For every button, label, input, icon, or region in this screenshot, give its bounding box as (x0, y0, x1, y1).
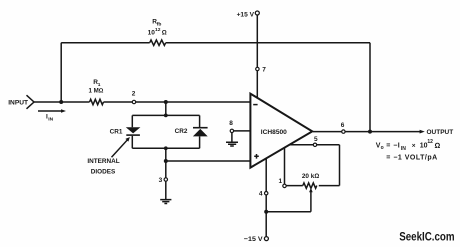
ground (pin 3) (160, 200, 171, 204)
svg-text:1: 1 (278, 178, 282, 185)
wire feedback top rail right (166, 42, 370, 44)
svg-text:+15 V: +15 V (237, 11, 255, 18)
node 2 (132, 100, 135, 103)
svg-text:ICH8500: ICH8500 (261, 129, 287, 136)
svg-text:20 kΩ: 20 kΩ (302, 173, 319, 180)
svg-text:4: 4 (259, 191, 263, 198)
svg-text:= −1 VOLT/pA: = −1 VOLT/pA (386, 154, 437, 161)
svg-text:= −I: = −I (386, 143, 400, 150)
wiper return wire (266, 211, 311, 213)
svg-text:INTERNAL: INTERNAL (87, 158, 119, 165)
svg-text:OUTPUT: OUTPUT (427, 129, 454, 136)
diode CR1 (126, 127, 141, 133)
diode box top edge (132, 114, 199, 116)
potentiometer 20 kOhm (303, 183, 317, 188)
svg-text:SeekIC.com: SeekIC.com (399, 230, 454, 243)
wire down to diode box (165, 102, 167, 115)
junction on box top edge (164, 114, 168, 118)
svg-text:5: 5 (314, 136, 318, 143)
pin 4 wire V- (265, 158, 267, 238)
svg-text:8: 8 (229, 120, 233, 127)
wire output (313, 131, 421, 133)
wire input line left of R1 (34, 101, 90, 103)
svg-text:CR1: CR1 (110, 128, 123, 135)
junction on box bottom edge (164, 146, 168, 150)
pot loop bottom left wire to pin 1 (285, 185, 303, 187)
pin 5 wire (290, 144, 340, 146)
svg-text:Ω: Ω (162, 30, 167, 37)
svg-text:1 MΩ: 1 MΩ (88, 88, 103, 95)
wire feedback right vertical (369, 43, 371, 132)
wire V+ supply vertical (256, 15, 258, 98)
wire to non-inverting input (166, 160, 251, 162)
svg-text:12: 12 (427, 139, 433, 145)
diode CR2 (193, 127, 208, 129)
svg-text:Ω: Ω (435, 141, 441, 150)
svg-text:fb: fb (157, 21, 162, 27)
node: V- wiper junction (264, 210, 268, 214)
diode box bottom edge (132, 147, 199, 149)
op-amp U1 ICH8500 (250, 94, 312, 168)
pot wiper arrow (309, 188, 313, 192)
svg-text:2: 2 (132, 90, 136, 97)
node: feedback tap junction (59, 100, 63, 104)
svg-text:DIODES: DIODES (91, 169, 116, 176)
svg-text:12: 12 (155, 27, 161, 33)
resistor Rfb (150, 40, 166, 45)
input terminal chevron (27, 95, 35, 109)
diode box right edge upper (199, 115, 201, 127)
pin 1 wire from op-amp (284, 148, 286, 186)
label arrow to CR1 (112, 139, 129, 157)
svg-text:7: 7 (262, 66, 266, 73)
pot loop bottom right wire (319, 185, 340, 187)
pot loop right edge (339, 145, 341, 186)
diode box left edge upper (131, 115, 133, 127)
diode box left edge lower (131, 136, 133, 148)
node: output feedback junction (368, 130, 372, 134)
svg-text:IN: IN (48, 117, 53, 123)
wire from box bottom to ground / + input (165, 148, 167, 199)
junction with + input wire (164, 159, 168, 163)
svg-text:6: 6 (341, 122, 345, 129)
svg-text:CR2: CR2 (175, 128, 188, 135)
pin 6 (342, 130, 345, 133)
wire feedback left vertical (60, 43, 62, 102)
svg-text:−15 V: −15 V (244, 236, 263, 243)
pin 3 (164, 178, 167, 181)
resistor R1 (90, 99, 104, 104)
svg-text:×: × (412, 142, 416, 149)
wire feedback top rail left (61, 42, 150, 44)
diode box right edge lower (199, 136, 201, 148)
svg-text:o: o (381, 145, 384, 151)
current arrow I_IN (38, 110, 62, 112)
-15 V supply terminal (264, 237, 268, 241)
svg-text:INPUT: INPUT (8, 99, 28, 106)
ground (pin 8) (231, 133, 233, 142)
pin 7 (256, 67, 259, 70)
svg-text:3: 3 (159, 177, 163, 184)
svg-text:IN: IN (401, 146, 406, 152)
node: diode box top tap junction (164, 100, 168, 104)
wire input line right of R1 to op-amp inverting input (104, 101, 251, 103)
